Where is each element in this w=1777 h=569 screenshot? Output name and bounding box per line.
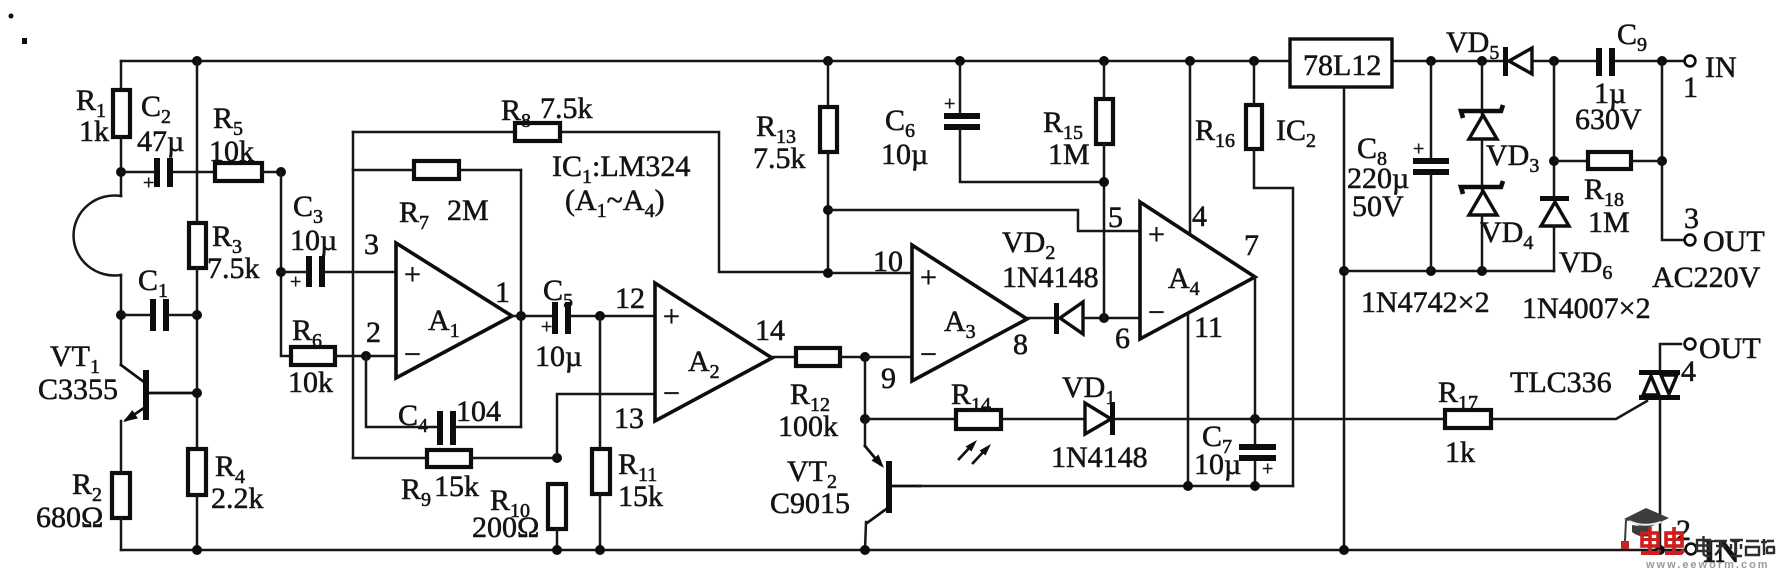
svg-text:10µ: 10µ <box>290 224 337 257</box>
wire top supply rail <box>121 60 1290 63</box>
pin 11 label and riser <box>1187 314 1190 486</box>
svg-text:+: + <box>920 261 937 294</box>
wire C2 row <box>121 171 154 174</box>
svg-text:C3355: C3355 <box>38 373 118 406</box>
svg-text:7.5k: 7.5k <box>207 252 260 285</box>
diode VD6 <box>1540 196 1569 201</box>
svg-text:5: 5 <box>1108 201 1123 234</box>
wire R11 riser <box>599 316 602 449</box>
svg-text:+: + <box>944 93 955 115</box>
svg-text:15k: 15k <box>618 480 663 513</box>
svg-text:630V: 630V <box>1575 103 1642 136</box>
svg-text:47µ: 47µ <box>137 125 184 158</box>
terminal OUT 3 <box>1685 235 1696 246</box>
svg-text:200Ω: 200Ω <box>472 511 539 544</box>
node A1 output junction <box>516 311 526 321</box>
wire C3 right to A1 pin3 <box>325 271 396 274</box>
wire R8 row <box>353 131 515 134</box>
wire x197 branch from rail to R3 <box>196 61 199 223</box>
wire VD1 to A4 output node and on to R17 <box>1115 418 1445 421</box>
wire R9 row <box>353 457 427 460</box>
wire triac bottom to rail <box>1659 400 1662 550</box>
svg-text:3: 3 <box>1684 202 1699 235</box>
capacitor C7 <box>1254 419 1257 444</box>
svg-text:10µ: 10µ <box>1194 448 1241 481</box>
wire R9 right to R10 node <box>471 457 557 460</box>
wire bias to A4 pin5 <box>828 210 1140 231</box>
svg-text:+: + <box>663 300 680 333</box>
svg-text:10k: 10k <box>209 135 254 168</box>
svg-text:6: 6 <box>1115 322 1130 355</box>
zener VD3 <box>1481 61 1484 114</box>
node R1/C2 junction <box>116 167 126 177</box>
svg-text:2.2k: 2.2k <box>211 482 264 515</box>
svg-text:−: − <box>920 338 937 371</box>
wire R4 bottom to rail <box>196 495 199 550</box>
diode VD5 <box>1503 47 1508 76</box>
svg-text:14: 14 <box>755 314 785 347</box>
svg-text:IC1:LM324: IC1:LM324 <box>552 150 690 188</box>
capacitor C8 <box>1430 61 1433 158</box>
resistor R6 <box>291 347 335 365</box>
wire R2 bottom to rail <box>120 518 123 550</box>
capacitor C3 <box>306 256 312 287</box>
svg-text:1k: 1k <box>79 115 109 148</box>
svg-text:9: 9 <box>881 362 896 395</box>
wire R17 to triac gate <box>1491 401 1647 419</box>
svg-text:TLC336: TLC336 <box>1510 366 1612 399</box>
svg-text:1N4148: 1N4148 <box>1002 261 1099 294</box>
svg-text:15k: 15k <box>434 470 479 503</box>
node VT1 base junction <box>192 388 202 398</box>
svg-text:+: + <box>1148 218 1165 251</box>
wire mic to C1 node <box>120 275 123 365</box>
node top rail junction dots <box>192 56 202 66</box>
wire node to A3 pin9 <box>865 356 912 359</box>
svg-text:2: 2 <box>366 316 381 349</box>
capacitor C2 <box>154 158 160 187</box>
svg-text:1M: 1M <box>1588 206 1630 239</box>
transistor VT2 C9015 <box>864 419 867 446</box>
wire right ground row <box>1344 270 1554 273</box>
resistor R7 <box>414 161 459 179</box>
svg-text:+: + <box>143 172 154 194</box>
wire A2 output to R12 <box>772 356 796 359</box>
resistor R12 <box>796 348 840 366</box>
wire 78L12 ground pin <box>1343 87 1346 550</box>
wire C5 right to A2 pin12 <box>571 315 655 318</box>
wire R1 bottom to node <box>120 137 123 196</box>
svg-text:7.5k: 7.5k <box>753 142 806 175</box>
svg-text:+: + <box>290 271 301 293</box>
svg-text:680Ω: 680Ω <box>36 501 103 534</box>
svg-text:−: − <box>663 377 680 410</box>
wire R15 bottom to VD2 node <box>1103 144 1106 318</box>
resistor R8 <box>515 123 560 141</box>
watermark graduation cap <box>1621 508 1669 549</box>
svg-text:1: 1 <box>1683 71 1698 104</box>
svg-text:7: 7 <box>1244 229 1259 262</box>
watermark chongchong red characters <box>1641 527 1684 553</box>
wire R16 bottom riser to ground row <box>1254 149 1293 486</box>
wire R12 right to node <box>840 356 865 359</box>
resistor R14 photoresistor <box>956 410 1001 429</box>
svg-text:4: 4 <box>1192 200 1207 233</box>
wire left branch from rail to R1 <box>120 61 123 90</box>
wire node down to R14 node <box>864 357 867 419</box>
capacitor C5 <box>552 302 558 334</box>
node C1 right junction <box>192 310 202 320</box>
svg-text:8: 8 <box>1013 328 1028 361</box>
resistor R1 <box>113 90 130 137</box>
resistor R18 <box>1554 160 1588 163</box>
watermark site name characters <box>1697 536 1775 556</box>
wire R6 right to A1 pin2 <box>335 355 396 358</box>
wire R14 row <box>865 418 956 421</box>
terminal OUT 4 <box>1685 339 1696 350</box>
resistor R17 <box>1445 410 1491 428</box>
svg-text:+: + <box>1262 458 1273 480</box>
wire riser to A2 pin13 <box>557 394 655 458</box>
op-amp A4 <box>1140 202 1255 339</box>
svg-text:3: 3 <box>364 228 379 261</box>
wire C4 branch from pin2 node <box>366 356 437 427</box>
svg-text:1N4007×2: 1N4007×2 <box>1522 292 1651 325</box>
svg-text:1N4742×2: 1N4742×2 <box>1361 286 1490 319</box>
diode VD1 1N4148 <box>1085 403 1111 434</box>
pin 4 label and riser <box>1189 61 1192 234</box>
svg-text:C9015: C9015 <box>770 487 850 520</box>
resistor R15 <box>1103 61 1106 99</box>
resistor R11 <box>592 449 610 494</box>
svg-text:1k: 1k <box>1445 436 1475 469</box>
capacitor C4 <box>437 411 443 445</box>
wire R14 to VD1 <box>1001 418 1085 421</box>
node pin11 ground row dots <box>1183 481 1193 491</box>
wire bottom ground rail <box>121 549 1684 552</box>
svg-text:2M: 2M <box>447 194 489 227</box>
svg-text:10µ: 10µ <box>881 138 928 171</box>
wire R13 bottom down <box>827 152 830 273</box>
scan speckles top-left <box>9 14 14 19</box>
wire A3 pin10 <box>828 272 912 275</box>
svg-text:AC220V: AC220V <box>1652 261 1761 294</box>
svg-text:13: 13 <box>614 402 644 435</box>
microphone VT1 capsule arc <box>74 196 121 276</box>
svg-text:1: 1 <box>495 276 510 309</box>
svg-text:+: + <box>541 316 552 338</box>
op-amp A2 <box>655 283 772 421</box>
op-amp A3 <box>912 245 1027 381</box>
svg-text:100k: 100k <box>778 410 838 443</box>
svg-text:1M: 1M <box>1048 138 1090 171</box>
svg-text:1N4148: 1N4148 <box>1051 441 1148 474</box>
node C5/R11 junction <box>595 311 605 321</box>
svg-text:IN: IN <box>1705 51 1737 84</box>
resistor R10 <box>548 484 566 529</box>
op-amp A1 <box>396 243 512 378</box>
resistor R2 <box>112 473 130 518</box>
svg-text:78L12: 78L12 <box>1303 49 1381 82</box>
resistor R3 <box>189 223 206 268</box>
wire A1 feedback left vertical <box>352 132 355 458</box>
diode VD2 1N4148 <box>1054 303 1059 334</box>
terminal IN 2 <box>1686 544 1697 555</box>
svg-text:+: + <box>1413 138 1424 160</box>
wire R5 right to node <box>262 171 281 174</box>
wire VT2 base row to right <box>918 485 1293 488</box>
wire feedback right vertical <box>520 170 523 427</box>
node C1 left junction <box>116 310 126 320</box>
svg-text:10k: 10k <box>288 366 333 399</box>
svg-text:50V: 50V <box>1352 190 1404 223</box>
resistor R4 <box>188 449 206 495</box>
svg-text:11: 11 <box>1194 311 1223 344</box>
capacitor C6 <box>959 61 962 113</box>
wire top rail VD5 to C9 <box>1533 60 1597 63</box>
triac TLC336 <box>1639 370 1680 375</box>
resistor R5 <box>215 163 262 181</box>
wire A4 output down <box>1254 277 1257 419</box>
svg-text:4: 4 <box>1681 355 1696 388</box>
wire x1554 branch <box>1553 61 1556 197</box>
svg-text:10µ: 10µ <box>535 340 582 373</box>
svg-text:+: + <box>404 258 421 291</box>
wire VD2 to pin6 node <box>1083 317 1140 320</box>
light arrows into R14 <box>959 445 972 459</box>
svg-text:OUT: OUT <box>1699 332 1761 365</box>
wire R3 bottom down to R4 <box>196 268 199 449</box>
wire IN column down to OUT 3 <box>1662 61 1684 240</box>
svg-text:12: 12 <box>615 282 645 315</box>
regulator 78L12 <box>1290 39 1392 87</box>
wire top rail right of 78L12 <box>1392 60 1504 63</box>
terminal IN 1 <box>1685 56 1696 67</box>
transistor VT1 C3355 <box>143 370 149 420</box>
capacitor C1 <box>150 299 156 331</box>
resistor R9 <box>427 450 471 467</box>
svg-text:−: − <box>1148 296 1165 329</box>
wire R7 row <box>353 169 414 172</box>
wire x281 branch down <box>281 172 291 356</box>
resistor R16 <box>1253 61 1256 105</box>
svg-text:−: − <box>404 338 421 371</box>
wire triac top to OUT 4 <box>1660 344 1681 370</box>
wire top rail C9 to IN terminal <box>1615 60 1683 63</box>
svg-text:OUT: OUT <box>1703 225 1765 258</box>
capacitor C9 <box>1596 48 1602 76</box>
zener VD4 <box>1461 181 1503 194</box>
svg-text:7.5k: 7.5k <box>540 92 593 125</box>
resistor R13 <box>827 61 830 107</box>
wire A1 output to C5 <box>512 315 552 318</box>
svg-text:104: 104 <box>456 395 501 428</box>
node A1 pin2 junction <box>361 351 371 361</box>
wire A3 output to VD2 <box>1027 317 1055 320</box>
svg-text:www.eeworm.com: www.eeworm.com <box>1645 559 1770 569</box>
